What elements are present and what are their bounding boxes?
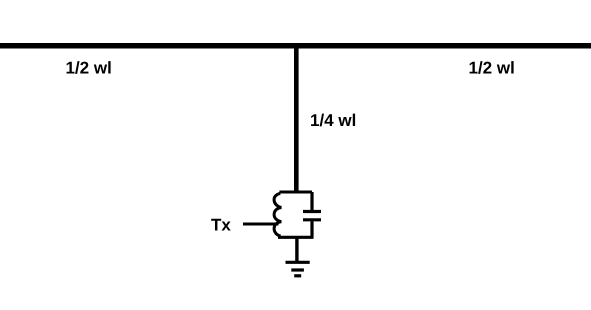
label: 1/4 wl (stub length) [311, 114, 355, 127]
wire: ground lead from tank bottom [295, 239, 298, 262]
inductor L (3-turn coil, left leg of tank) [274, 193, 281, 236]
wire: tank circuit bottom conductor [278, 236, 314, 239]
wire: tank circuit top conductor [279, 191, 312, 194]
wire: Tx feed line to coil tap [243, 223, 279, 226]
wire: vertical quarter-wave matching stub [294, 45, 299, 192]
capacitor C (right leg of tank) [303, 192, 321, 238]
wire: horizontal antenna element (flat top) [0, 43, 591, 49]
ground symbol (three bars) [286, 262, 310, 276]
label: 1/2 wl (right half-wave section) [470, 61, 514, 74]
label: 1/2 wl (left half-wave section) [67, 61, 111, 74]
label: Tx (transmitter) [211, 219, 231, 231]
